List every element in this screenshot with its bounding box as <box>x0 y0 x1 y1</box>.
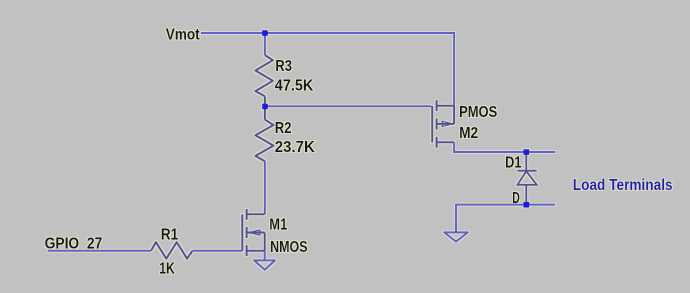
transistor M2 PMOS <box>432 100 454 148</box>
junction at Vmot / R3 top <box>262 30 268 36</box>
svg-text:Load Terminals: Load Terminals <box>573 177 673 194</box>
wire R3 bottom lead <box>264 96 266 106</box>
svg-text:1K: 1K <box>159 261 175 278</box>
wire top junction down to R3 <box>264 33 266 55</box>
wire junction to PMOS gate <box>265 105 431 107</box>
svg-text:R1: R1 <box>161 227 179 244</box>
cathode lead <box>525 152 527 171</box>
source stub <box>247 250 265 252</box>
cathode bar <box>517 170 536 172</box>
gate bar <box>241 214 243 251</box>
svg-text:R3: R3 <box>275 58 292 75</box>
wire NMOS source to ground <box>264 251 266 261</box>
diode D1 <box>517 152 536 205</box>
channel dash middle <box>246 227 248 238</box>
svg-text:47.5K: 47.5K <box>275 77 314 94</box>
svg-text:Vmot: Vmot <box>166 27 201 44</box>
junction at D1 cathode / load terminal top <box>524 149 530 155</box>
wire GPIO_27 to R1 <box>48 250 151 252</box>
svg-text:M1: M1 <box>269 217 287 234</box>
channel dash bottom <box>436 137 438 148</box>
gate bar <box>431 106 433 142</box>
source-bulk tie <box>264 233 266 251</box>
wire R1 to NMOS gate <box>193 250 243 252</box>
channel dash middle <box>436 119 438 130</box>
bulk arrow (points left) <box>249 230 260 235</box>
wire PMOS drain down and right to D1 top row <box>454 142 555 152</box>
svg-text:D1: D1 <box>505 155 521 172</box>
junction at D1 anode / load terminal bottom <box>524 202 530 208</box>
svg-text:M2: M2 <box>459 125 478 142</box>
source stub <box>437 105 455 107</box>
wire D1 anode row: ground branch left, load terminal right <box>456 205 555 232</box>
source-bulk tie <box>453 106 455 124</box>
svg-text:NMOS: NMOS <box>270 239 308 256</box>
channel dash top <box>436 100 438 111</box>
anode triangle <box>517 171 536 185</box>
junction at R3/R2/PMOS gate <box>262 104 268 110</box>
drain stub <box>247 213 265 215</box>
channel dash top <box>246 209 248 220</box>
ground under M1 <box>254 260 275 269</box>
svg-text:R2: R2 <box>275 120 292 137</box>
wire R2 bottom to NMOS drain <box>264 161 266 214</box>
anode lead <box>525 185 527 205</box>
bulk stub <box>247 232 265 234</box>
resistor R1 <box>151 242 193 259</box>
channel dash bottom <box>246 245 248 256</box>
wire Vmot to top junction and across to PMOS source column <box>201 33 454 106</box>
resistor R2 <box>264 106 266 119</box>
bulk stub <box>437 123 455 125</box>
svg-text:PMOS: PMOS <box>459 104 497 121</box>
resistor R3 <box>255 55 273 96</box>
svg-text:23.7K: 23.7K <box>275 139 315 156</box>
ground under D1 branch <box>444 232 467 241</box>
drain stub <box>437 141 455 143</box>
transistor M1 NMOS <box>242 209 264 256</box>
bulk arrow (points right) <box>442 121 452 126</box>
